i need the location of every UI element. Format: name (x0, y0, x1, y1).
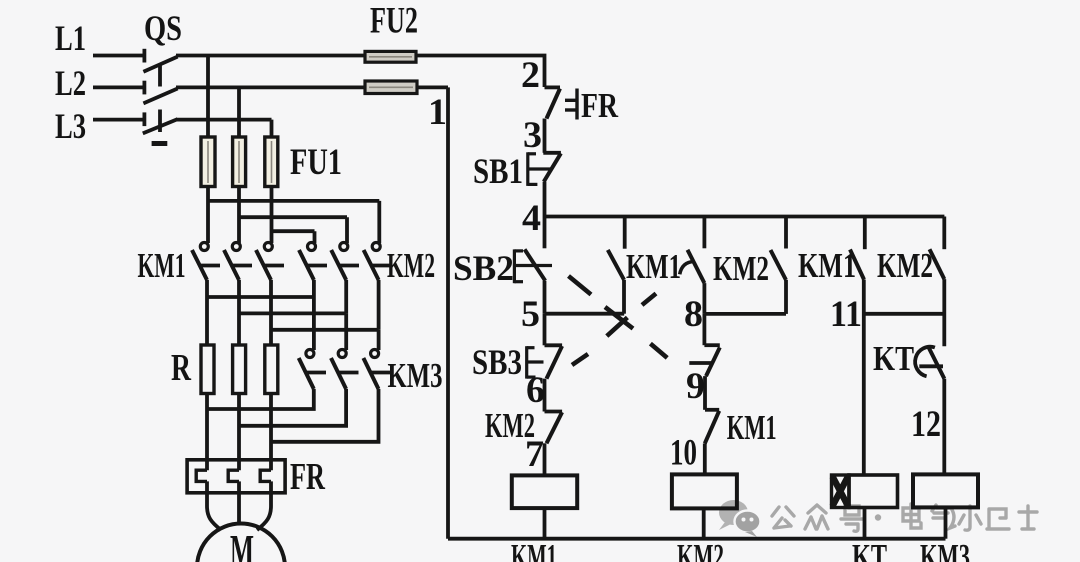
wire L1 drop to FU1-1 (206, 56, 210, 138)
disconnect switch QS pole 2 (143, 89, 177, 104)
contactor KM3 contact pole 3 (271, 330, 391, 442)
svg-text:KM1: KM1 (626, 247, 681, 286)
wire L2 to FU2 (176, 86, 365, 90)
svg-text:KT: KT (873, 339, 914, 378)
svg-text:KM2: KM2 (713, 249, 769, 288)
svg-text:KM2: KM2 (877, 246, 933, 285)
wire node 11 (864, 312, 945, 316)
svg-text:SB1: SB1 (473, 151, 523, 191)
contactor KM2 main contact pole 2 (331, 243, 359, 314)
FR heater element phase 3 (257, 470, 271, 530)
wire bottom return bus (448, 537, 946, 541)
thermal relay FR heater box (187, 460, 285, 493)
button SB3 NO contact (node 4-8) (680, 217, 705, 314)
watermark wechat icon (719, 500, 761, 537)
svg-text:11: 11 (830, 294, 862, 335)
svg-text:9: 9 (686, 366, 705, 407)
svg-text:KM2: KM2 (485, 406, 535, 445)
svg-text:M: M (230, 525, 254, 562)
resistor R phase 1 (201, 345, 214, 470)
wire cross-connect L1 to KM2 right pole (208, 201, 379, 243)
button SB3 NC contact (node 5-6) (545, 314, 563, 412)
QS linkage bar (152, 65, 168, 144)
wire FU2 upper to control column node 2 (416, 56, 545, 88)
wire node 8 (704, 312, 786, 316)
fuse FU2 lower (365, 81, 417, 94)
svg-text:KM1: KM1 (138, 246, 186, 285)
svg-text:KM2: KM2 (677, 537, 724, 562)
contactor KM2 main contact pole 3 (364, 243, 392, 330)
wire L1 incoming (93, 49, 144, 63)
svg-text:SB2: SB2 (453, 248, 514, 288)
wire control bus node 4 (545, 215, 945, 219)
wire node 1: FU2 lower down the left of control circuit (417, 87, 448, 538)
svg-text:10: 10 (670, 433, 697, 474)
contactor KM1 main contact pole 1 (192, 243, 220, 346)
svg-text:8: 8 (684, 294, 703, 335)
FR heater element phase 2 (228, 470, 239, 524)
wire junction KM1/KM2 outputs phase 3 (271, 328, 379, 332)
start button SB2 NO contact (node 4-5) (525, 217, 546, 314)
svg-text:SB3: SB3 (472, 342, 522, 382)
motor M circle (197, 524, 285, 562)
svg-text:FU1: FU1 (290, 142, 342, 183)
svg-text:QS: QS (144, 8, 182, 48)
SB2 actuator bracket (514, 249, 552, 283)
coil KM2 (672, 474, 737, 538)
wire L2 drop to FU1-2 (237, 87, 241, 137)
contactor KM1 main contact pole 2 (224, 243, 252, 346)
svg-text:KM2: KM2 (387, 246, 435, 285)
SB1 actuator bracket (528, 152, 552, 186)
wire junction KM1/KM2 outputs phase 1 (207, 295, 314, 299)
svg-text:R: R (171, 347, 191, 389)
coil KT with delay box (832, 475, 898, 539)
coil KM1 (512, 475, 577, 538)
svg-text:1: 1 (428, 92, 447, 133)
fuse FU2 upper (365, 51, 416, 62)
SB3 actuator bracket (527, 346, 544, 378)
contactor KM1 NC interlock contact (node 9-10) (705, 410, 719, 475)
button SB2 NC contact (node 8-9) (689, 314, 720, 410)
svg-text:L1: L1 (55, 18, 86, 58)
contactor KM1 NO contact feeding KT (node 4-11) (850, 217, 865, 476)
svg-text:12: 12 (911, 404, 941, 445)
disconnect switch QS pole 1 (143, 57, 177, 72)
contactor KM1 NO self-latch contact (node 4-5) (608, 217, 625, 314)
wire junction KM1/KM2 outputs phase 2 (239, 311, 346, 315)
resistor R phase 3 (265, 345, 278, 470)
svg-text:KM3: KM3 (388, 356, 443, 395)
fuse FU1-3 (265, 137, 278, 243)
time relay KT delayed-close NO contact (node 11-12) (915, 347, 944, 475)
wire cross-connect L3 to KM2 left pole (272, 231, 315, 243)
contactor KM2 NC interlock contact (node 6-7) (545, 412, 563, 476)
disconnect switch QS pole 3 (143, 119, 178, 133)
svg-text:KM1: KM1 (798, 246, 856, 285)
svg-text:L2: L2 (55, 63, 86, 103)
coil KM3 (913, 474, 978, 538)
contactor KM1 main contact pole 3 (256, 243, 284, 346)
wire L3 incoming (93, 112, 144, 126)
svg-text:FR: FR (581, 86, 619, 125)
contactor KM2 NO contact feeding KT (node 4-11) (930, 217, 945, 347)
wire L1 to FU2 (176, 54, 365, 58)
svg-text:FR: FR (290, 456, 325, 498)
svg-text:4: 4 (522, 198, 541, 239)
contactor KM2 NO self-latch contact (node 4-8) (771, 217, 787, 314)
FR contact actuator bracket (565, 89, 577, 120)
fuse FU1-1 (201, 137, 215, 243)
contactor KM2 main contact pole 1 (299, 243, 327, 298)
svg-text:5: 5 (521, 294, 540, 335)
contactor KM3 contact pole 1 (207, 297, 326, 409)
svg-text:KM3: KM3 (920, 537, 970, 562)
resistor R phase 2 (233, 345, 246, 470)
FR heater element phase 1 (196, 470, 221, 530)
dashed mechanical link SB3 to its NO contact (572, 294, 656, 366)
thermal relay FR NC contact (node 2-3) (545, 87, 561, 152)
svg-text:FU2: FU2 (370, 1, 418, 42)
wire node 5 (545, 312, 625, 316)
contactor KM3 contact pole 2 (239, 313, 359, 425)
dashed mechanical link SB2 to its NC contact (569, 276, 668, 358)
wire L3 to FU1 (176, 120, 272, 137)
svg-text:L3: L3 (55, 106, 86, 146)
svg-text:6: 6 (526, 370, 545, 411)
svg-text:KM1: KM1 (511, 537, 557, 562)
svg-text:KT: KT (852, 537, 887, 562)
fuse FU1-2 (233, 137, 246, 243)
stop button SB1 NC contact (node 3-4) (543, 153, 561, 217)
svg-text:2: 2 (521, 55, 540, 96)
svg-text:KM1: KM1 (727, 408, 777, 447)
wire L2 incoming (93, 81, 144, 95)
watermark text 公众号·电气小卫士 (772, 504, 1037, 531)
wire cross-connect L2 to KM2 middle pole (239, 217, 347, 243)
svg-text:3: 3 (523, 115, 542, 156)
